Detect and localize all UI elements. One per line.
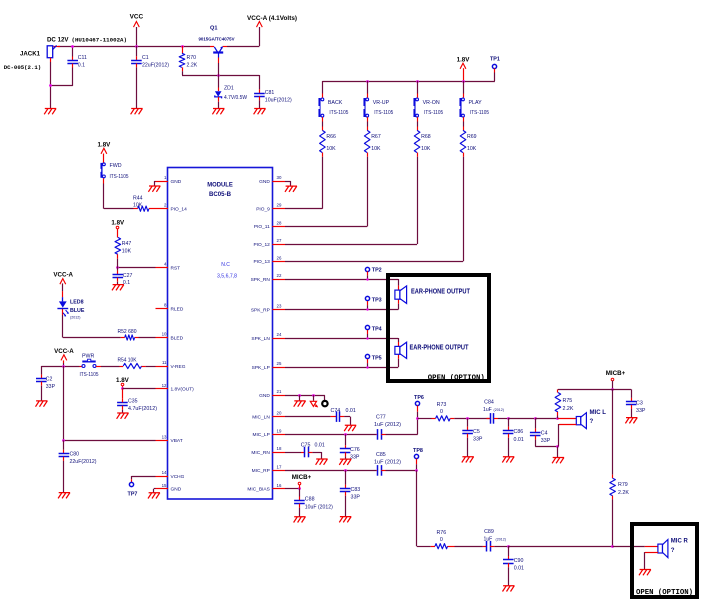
svg-text:(2012): (2012)	[494, 408, 504, 412]
svg-text:(2012): (2012)	[70, 316, 80, 320]
svg-text:2.2K: 2.2K	[563, 406, 574, 412]
svg-text:OPEN (OPTION): OPEN (OPTION)	[636, 589, 693, 597]
svg-text:R67: R67	[371, 134, 381, 140]
svg-text:ITS-1105: ITS-1105	[470, 110, 489, 116]
svg-text:R54 10K: R54 10K	[118, 358, 137, 364]
svg-text:0.01: 0.01	[346, 408, 356, 414]
svg-text:PIO_12: PIO_12	[254, 242, 271, 248]
svg-text:19: 19	[277, 428, 282, 433]
svg-text:Q1: Q1	[210, 26, 217, 32]
svg-text:TP3: TP3	[372, 298, 382, 304]
svg-text:3,5,6,7,8: 3,5,6,7,8	[217, 274, 237, 280]
svg-text:PIO_11: PIO_11	[254, 224, 270, 230]
svg-text:PIO_13: PIO_13	[254, 259, 271, 265]
svg-text:10K: 10K	[122, 248, 132, 254]
svg-text:9015GA/TC4075V: 9015GA/TC4075V	[199, 37, 235, 42]
svg-text:33P: 33P	[636, 408, 646, 414]
svg-text:MICB+: MICB+	[606, 370, 626, 377]
svg-text:C2: C2	[46, 377, 53, 383]
svg-text:OPEN (OPTION): OPEN (OPTION)	[428, 375, 485, 383]
svg-text:MIC L: MIC L	[590, 409, 607, 416]
svg-text:VR-ON: VR-ON	[423, 100, 440, 106]
svg-text:SPK_RP: SPK_RP	[251, 307, 270, 313]
svg-text:0.1: 0.1	[78, 62, 85, 68]
svg-text:1.8V(OUT): 1.8V(OUT)	[171, 387, 195, 393]
svg-text:1.8V: 1.8V	[98, 141, 112, 148]
svg-text:VCC-A: VCC-A	[54, 348, 74, 355]
svg-text:C5: C5	[473, 429, 480, 435]
svg-text:?: ?	[671, 547, 675, 554]
svg-text:TP6: TP6	[414, 395, 424, 401]
svg-text:C83: C83	[351, 487, 361, 493]
svg-text:MIC_RP: MIC_RP	[252, 468, 270, 474]
svg-text:1uF: 1uF	[484, 536, 493, 542]
svg-text:TP2: TP2	[372, 268, 382, 274]
svg-text:BACK: BACK	[328, 100, 343, 106]
svg-text:2.2K: 2.2K	[618, 490, 629, 496]
svg-text:33P: 33P	[46, 384, 56, 390]
svg-text:33P: 33P	[350, 455, 360, 461]
svg-text:LED8: LED8	[70, 299, 84, 305]
svg-text:TP4: TP4	[372, 326, 382, 332]
svg-text:C11: C11	[78, 55, 87, 61]
svg-text:BLUE: BLUE	[70, 308, 85, 314]
svg-text:R66: R66	[326, 134, 336, 140]
svg-text:SPK_RN: SPK_RN	[251, 277, 271, 283]
svg-text:C35: C35	[128, 399, 138, 405]
svg-text:VBAT: VBAT	[171, 438, 183, 444]
svg-text:TP1: TP1	[490, 57, 500, 63]
svg-text:C3: C3	[636, 400, 643, 406]
svg-text:R47: R47	[122, 241, 132, 247]
svg-text:0: 0	[440, 537, 443, 543]
svg-text:28: 28	[277, 220, 282, 225]
svg-text:1.8V: 1.8V	[111, 220, 125, 227]
svg-text:R68: R68	[421, 134, 431, 140]
svg-text:DC-005(2.1): DC-005(2.1)	[4, 64, 42, 71]
svg-text:FWD: FWD	[110, 163, 122, 169]
svg-text:SPK_LN: SPK_LN	[251, 336, 270, 342]
svg-text:VCC: VCC	[130, 14, 144, 21]
svg-text:R75: R75	[563, 398, 573, 404]
svg-text:10: 10	[162, 332, 167, 337]
svg-text:2.2K: 2.2K	[187, 63, 198, 69]
svg-text:1uF: 1uF	[483, 407, 492, 413]
svg-text:1.8V: 1.8V	[116, 377, 130, 384]
svg-text:4.7V/0.5W: 4.7V/0.5W	[224, 95, 247, 101]
svg-text:0.1: 0.1	[123, 280, 130, 286]
svg-text:15: 15	[162, 483, 167, 488]
svg-text:1uF (2012): 1uF (2012)	[374, 460, 401, 466]
svg-text:C74: C74	[331, 408, 341, 414]
svg-text:TP5: TP5	[372, 356, 382, 362]
svg-text:C80: C80	[70, 452, 80, 458]
svg-text:ITS-1105: ITS-1105	[374, 110, 393, 116]
svg-text:GND: GND	[171, 487, 182, 493]
svg-text:25: 25	[277, 361, 282, 366]
svg-text:R44: R44	[133, 195, 143, 201]
svg-text:22uF(2012): 22uF(2012)	[70, 459, 97, 465]
svg-text:VCHG: VCHG	[171, 474, 185, 480]
svg-text:VR-UP: VR-UP	[373, 100, 390, 106]
svg-text:ITS-1105: ITS-1105	[424, 110, 443, 116]
svg-text:MIC_LP: MIC_LP	[252, 432, 269, 438]
svg-text:18: 18	[277, 446, 282, 451]
svg-text:TP7: TP7	[128, 491, 138, 497]
svg-text:17: 17	[277, 464, 282, 469]
svg-text:1.8V: 1.8V	[457, 56, 471, 63]
svg-text:ITS-1105: ITS-1105	[329, 110, 348, 116]
svg-text:10K: 10K	[133, 202, 143, 208]
svg-text:4.7uF(2012): 4.7uF(2012)	[128, 406, 157, 412]
svg-text:0.01: 0.01	[315, 443, 325, 449]
svg-text:C84: C84	[484, 399, 494, 405]
svg-text:0: 0	[440, 409, 443, 415]
svg-text:20: 20	[277, 411, 282, 416]
svg-text:BC05-B: BC05-B	[209, 191, 231, 198]
svg-text:R76: R76	[436, 530, 446, 536]
svg-text:21: 21	[277, 389, 282, 394]
svg-text:VCC-A: VCC-A	[53, 272, 73, 279]
svg-text:ITS-1105: ITS-1105	[80, 372, 99, 378]
svg-text:22uF(2012): 22uF(2012)	[142, 62, 169, 68]
svg-text:VCC-A (4.1Volts): VCC-A (4.1Volts)	[247, 15, 297, 22]
svg-text:30: 30	[277, 175, 282, 180]
svg-text:SPK_LP: SPK_LP	[252, 365, 270, 371]
svg-text:C4: C4	[541, 430, 548, 436]
svg-text:33P: 33P	[473, 436, 483, 442]
svg-text:C85: C85	[376, 452, 386, 458]
svg-text:PWR: PWR	[82, 353, 95, 359]
svg-text:0.01: 0.01	[514, 437, 524, 443]
svg-text:RLED: RLED	[171, 307, 184, 313]
svg-text:GND: GND	[259, 393, 270, 399]
svg-text:0.01: 0.01	[514, 566, 524, 572]
svg-text:24: 24	[277, 332, 282, 337]
svg-text:R73: R73	[437, 402, 447, 408]
svg-text:33P: 33P	[541, 438, 551, 444]
svg-text:R79: R79	[618, 482, 628, 488]
svg-text:23: 23	[277, 304, 282, 309]
svg-text:MIC R: MIC R	[671, 537, 689, 544]
svg-text:PIO_14: PIO_14	[171, 207, 188, 213]
svg-text:27: 27	[277, 238, 282, 243]
svg-text:33P: 33P	[351, 494, 361, 500]
svg-text:22: 22	[277, 273, 282, 278]
svg-text:10K: 10K	[467, 146, 477, 152]
svg-text:C1: C1	[142, 55, 149, 61]
svg-text:C27: C27	[123, 273, 133, 279]
svg-text:GND: GND	[171, 179, 182, 185]
svg-text:N.C: N.C	[221, 262, 230, 268]
svg-text:R70: R70	[187, 55, 197, 61]
svg-text:10uF (2012): 10uF (2012)	[305, 504, 333, 510]
svg-text:14: 14	[162, 470, 167, 475]
svg-text:C89: C89	[484, 529, 494, 535]
svg-text:JACK1: JACK1	[20, 51, 41, 58]
svg-text:ITS-1105: ITS-1105	[110, 174, 129, 180]
svg-text:PIO_9: PIO_9	[256, 207, 270, 213]
svg-text:12: 12	[162, 383, 167, 388]
svg-text:C76: C76	[350, 447, 360, 453]
svg-text:TP8: TP8	[413, 448, 423, 454]
svg-text:1uF (2012): 1uF (2012)	[374, 422, 401, 428]
svg-text:EAR-PHONE OUTPUT: EAR-PHONE OUTPUT	[410, 343, 469, 352]
svg-text:10K: 10K	[371, 146, 381, 152]
svg-text:R52 680: R52 680	[118, 329, 137, 335]
svg-text:BLED: BLED	[171, 335, 184, 341]
svg-text:11: 11	[162, 360, 167, 365]
svg-text:C86: C86	[514, 429, 524, 435]
svg-text:EAR-PHONE OUTPUT: EAR-PHONE OUTPUT	[411, 286, 470, 295]
svg-text:C88: C88	[305, 497, 315, 503]
svg-text:(HU10467-11002A): (HU10467-11002A)	[72, 36, 128, 43]
svg-text:16: 16	[277, 483, 282, 488]
svg-text:MIC_LN: MIC_LN	[252, 414, 270, 420]
svg-text:ZD1: ZD1	[224, 85, 234, 91]
svg-text:GND: GND	[259, 179, 270, 185]
svg-text:V-REG: V-REG	[171, 364, 186, 370]
svg-text:R69: R69	[467, 134, 477, 140]
svg-text:MICB+: MICB+	[292, 474, 312, 481]
svg-text:10uF(2012): 10uF(2012)	[265, 98, 292, 104]
svg-text:13: 13	[162, 434, 167, 439]
svg-text:?: ?	[590, 418, 594, 425]
svg-text:DC 12V: DC 12V	[47, 37, 69, 44]
svg-text:MIC_RN: MIC_RN	[251, 450, 270, 456]
svg-text:C75: C75	[301, 443, 311, 449]
svg-text:C81: C81	[265, 90, 275, 96]
svg-text:10K: 10K	[326, 146, 336, 152]
svg-text:26: 26	[277, 255, 282, 260]
svg-text:PLAY: PLAY	[469, 100, 483, 106]
svg-text:C77: C77	[376, 415, 386, 421]
svg-text:C90: C90	[514, 558, 524, 564]
svg-text:(2012): (2012)	[496, 537, 506, 541]
svg-text:10K: 10K	[421, 146, 431, 152]
svg-text:RST: RST	[171, 265, 181, 271]
svg-text:MIC_BIAS: MIC_BIAS	[247, 487, 269, 493]
svg-text:MODULE: MODULE	[207, 182, 233, 189]
svg-text:29: 29	[277, 203, 282, 208]
